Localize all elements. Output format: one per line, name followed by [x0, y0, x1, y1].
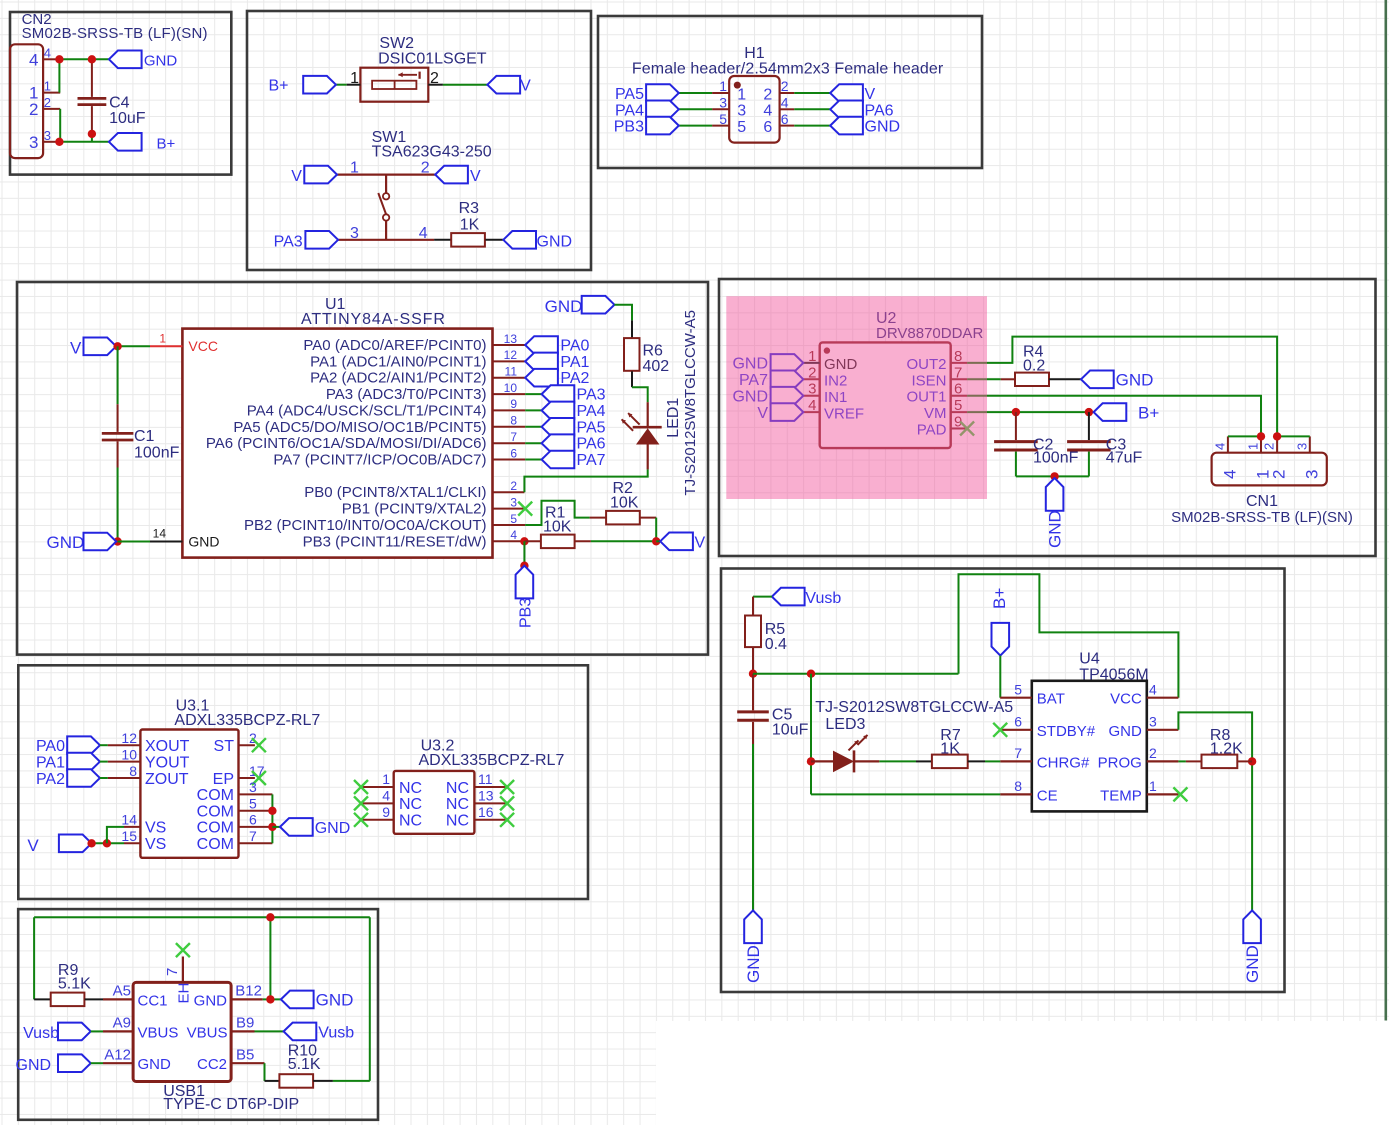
svg-text:GND: GND	[545, 297, 583, 316]
svg-text:PA4: PA4	[615, 102, 644, 119]
svg-text:3: 3	[350, 225, 359, 242]
svg-text:V: V	[470, 168, 481, 185]
junction vm2	[1085, 408, 1093, 416]
svg-text:PB3 (PCINT11/RESET/dW): PB3 (PCINT11/RESET/dW)	[303, 533, 487, 550]
svg-text:B+: B+	[269, 78, 289, 95]
svg-text:3: 3	[1149, 714, 1157, 730]
svg-text:Vusb: Vusb	[318, 1025, 354, 1042]
pin 4 VREF	[803, 397, 864, 422]
block frame switches	[247, 11, 591, 270]
svg-text:NC: NC	[446, 780, 469, 797]
svg-text:1: 1	[159, 331, 166, 345]
svg-text:GND: GND	[537, 233, 573, 250]
pin 7 COM	[197, 828, 273, 853]
svg-text:PROG: PROG	[1098, 754, 1142, 771]
port V right u1	[660, 533, 705, 552]
no-connect X 13	[500, 796, 514, 810]
pin 1 marker dot u2	[824, 347, 830, 353]
pin 9 PA4	[247, 397, 525, 419]
svg-text:1: 1	[719, 78, 727, 94]
no-connect X pin 17	[252, 771, 266, 785]
svg-text:Vusb: Vusb	[805, 590, 841, 607]
junction at pin4	[55, 55, 63, 63]
pin 6 PA7	[273, 446, 525, 468]
port PA5	[615, 84, 679, 103]
wire COM bus	[271, 794, 273, 843]
wire VS up	[107, 827, 124, 843]
junction com2	[268, 823, 276, 831]
wire gnd bottom u2	[1016, 475, 1089, 477]
junction com1	[268, 807, 276, 815]
svg-text:GND: GND	[47, 533, 85, 552]
pin 2 of CN2	[29, 95, 60, 119]
wire com to gnd	[272, 826, 280, 828]
svg-text:16: 16	[478, 804, 494, 820]
wire prog to r8	[1178, 760, 1201, 762]
pin 3 of CN1	[1294, 436, 1321, 479]
junction cn1 a	[1257, 432, 1265, 440]
port PA7	[542, 451, 606, 469]
svg-text:3: 3	[510, 495, 517, 509]
port B+	[109, 133, 176, 152]
pin 4 of CN1	[1212, 436, 1239, 479]
pin 4 of CN2	[29, 45, 57, 69]
svg-text:V: V	[520, 78, 531, 95]
ic USB1 body	[133, 982, 231, 1081]
wire GND net top	[59, 58, 109, 60]
pin 1 VCC	[159, 331, 218, 354]
svg-text:TJ-S2012SW8TGLCCW-A5: TJ-S2012SW8TGLCCW-A5	[682, 310, 699, 496]
port Vusb b9	[284, 1023, 355, 1042]
ic U1 body	[182, 329, 492, 558]
no-connect X PAD	[960, 422, 974, 436]
sheet blank area (no grid) bottom-right	[656, 1021, 1389, 1125]
svg-text:2: 2	[781, 78, 789, 94]
port PA6	[830, 101, 893, 120]
svg-text:PA6: PA6	[865, 102, 894, 119]
pin 2 of CN1	[1262, 436, 1289, 479]
no-connect X 9	[354, 813, 368, 827]
junction top	[266, 913, 274, 921]
wire B+ to SW2	[336, 84, 361, 86]
svg-text:GND: GND	[138, 1056, 172, 1073]
port PB3	[614, 117, 679, 136]
svg-text:14: 14	[153, 527, 167, 541]
svg-text:ST: ST	[214, 738, 235, 755]
svg-text:EH: EH	[176, 983, 193, 1004]
wire pa	[525, 442, 541, 444]
junction PB3	[520, 537, 528, 545]
svg-text:A9: A9	[113, 1015, 131, 1032]
block frame CN2	[10, 12, 231, 175]
block frame U3	[18, 665, 588, 899]
pin 7 CHRG#	[1000, 745, 1090, 771]
svg-text:2: 2	[44, 95, 51, 110]
wire pa u3	[100, 744, 108, 746]
port GND sw	[503, 231, 572, 250]
svg-text:PA4 (ADC4/USCK/SCL/T1/PCINT4): PA4 (ADC4/USCK/SCL/T1/PCINT4)	[247, 402, 487, 419]
svg-text:B+: B+	[1138, 404, 1159, 423]
wire OUT1 to CN1 pin1	[967, 396, 1261, 437]
wire pa	[525, 393, 541, 395]
svg-text:10: 10	[504, 381, 518, 395]
pin 8 OUT2	[906, 348, 967, 373]
pin 3 GND	[1108, 714, 1178, 740]
svg-text:5: 5	[719, 111, 727, 127]
pin 5 BAT	[1000, 682, 1065, 708]
port GND top right	[545, 296, 615, 316]
svg-text:PA6 (PCINT6/OC1A/SDA/MOSI/DI/A: PA6 (PCINT6/OC1A/SDA/MOSI/DI/ADC6)	[206, 435, 487, 452]
svg-text:2: 2	[421, 160, 430, 177]
svg-text:7: 7	[164, 968, 181, 976]
svg-text:3: 3	[1294, 443, 1309, 450]
junction PB3 flag	[520, 562, 528, 570]
pin 1 of CN1	[1246, 436, 1273, 479]
wire main net	[753, 574, 1178, 697]
svg-text:V: V	[695, 534, 706, 551]
wire SW2 to V	[428, 84, 487, 86]
svg-text:GND: GND	[1116, 370, 1154, 389]
svg-text:PA0: PA0	[560, 338, 589, 355]
svg-text:GND: GND	[315, 820, 351, 837]
connector CN2 body	[10, 44, 43, 158]
port GND a12	[16, 1054, 91, 1074]
svg-text:GND: GND	[1046, 510, 1065, 548]
capacitor C1	[102, 404, 180, 467]
svg-text:9: 9	[382, 804, 390, 820]
pin 3 of CN2	[29, 128, 57, 152]
block frame U1	[17, 282, 708, 655]
port PA6	[542, 434, 606, 452]
svg-text:Female header/2.54mm2x3 Female: Female header/2.54mm2x3 Female header	[632, 61, 944, 78]
svg-text:0.2: 0.2	[1023, 357, 1045, 374]
wire cn1 right	[1277, 435, 1310, 437]
led LED3	[811, 735, 879, 773]
wire pa u3	[100, 761, 108, 763]
svg-text:PB1 (PCINT9/XTAL2): PB1 (PCINT9/XTAL2)	[342, 501, 487, 518]
svg-text:7: 7	[249, 828, 257, 844]
svg-text:PA1: PA1	[36, 754, 65, 771]
pin 1 marker dot	[734, 82, 741, 89]
svg-text:4: 4	[510, 528, 517, 542]
svg-text:ADXL335BCPZ-RL7: ADXL335BCPZ-RL7	[174, 712, 320, 729]
pin 1 TEMP	[1100, 778, 1178, 804]
wire left bus	[811, 674, 1000, 795]
svg-text:10K: 10K	[610, 495, 639, 512]
block frame USB1	[18, 909, 378, 1120]
port PA0	[36, 736, 100, 755]
svg-text:TEMP: TEMP	[1100, 787, 1142, 804]
junction main	[807, 670, 815, 678]
resistor R7	[932, 727, 968, 768]
wire b12	[263, 998, 281, 1000]
svg-text:3: 3	[29, 133, 38, 152]
svg-text:10uF: 10uF	[772, 721, 809, 738]
svg-text:GND: GND	[744, 945, 763, 983]
pin 1 of CN2	[29, 79, 60, 103]
port PB3 down	[516, 566, 535, 628]
svg-text:COM: COM	[197, 836, 234, 853]
resistor R2	[590, 480, 657, 524]
port PA2	[36, 769, 100, 788]
svg-text:ZOUT: ZOUT	[145, 771, 189, 788]
svg-text:V: V	[291, 168, 302, 185]
header H1 body	[729, 76, 779, 143]
wire pin2 to pin3	[59, 109, 61, 142]
svg-text:CHRG#: CHRG#	[1037, 754, 1090, 771]
svg-text:PA0 (ADC0/AREF/PCINT0): PA0 (ADC0/AREF/PCINT0)	[303, 337, 486, 354]
svg-text:8: 8	[1014, 778, 1022, 794]
svg-text:PB0 (PCINT8/XTAL1/CLKI): PB0 (PCINT8/XTAL1/CLKI)	[304, 484, 486, 501]
svg-text:GND: GND	[316, 991, 354, 1010]
svg-text:10: 10	[121, 746, 137, 762]
port GND	[109, 51, 177, 70]
pin 9 NC left	[361, 804, 422, 830]
pin 13 PA0	[303, 332, 525, 354]
junction V	[113, 342, 121, 350]
wire right	[794, 125, 830, 127]
svg-text:PA1: PA1	[560, 354, 589, 371]
svg-text:13: 13	[504, 332, 518, 346]
resistor R5	[745, 616, 787, 654]
svg-text:47uF: 47uF	[1106, 449, 1143, 466]
pin 3 PB1	[342, 495, 525, 517]
port GND	[830, 117, 900, 136]
junction v2	[103, 839, 111, 847]
svg-text:100nF: 100nF	[1033, 449, 1079, 466]
svg-text:100nF: 100nF	[134, 445, 180, 462]
pin 8 ZOUT	[108, 763, 189, 788]
port V right	[487, 76, 531, 95]
no-connect X PB1	[518, 502, 532, 516]
wire b+ to bat	[999, 656, 1001, 698]
svg-text:COM: COM	[197, 804, 234, 821]
svg-text:PA7 (PCINT7/ICP/OC0B/ADC7): PA7 (PCINT7/ICP/OC0B/ADC7)	[273, 452, 486, 469]
block frame U2	[719, 279, 1376, 556]
port PA0	[525, 336, 589, 354]
junction GND u1	[113, 537, 121, 545]
svg-text:DSIC01LSGET: DSIC01LSGET	[378, 50, 487, 67]
svg-text:GND: GND	[194, 992, 228, 1009]
svg-text:VBUS: VBUS	[187, 1024, 228, 1041]
port V right2	[435, 166, 481, 185]
svg-text:V: V	[865, 86, 876, 103]
port PA7 u2	[739, 371, 803, 390]
junction at pin3	[55, 138, 63, 146]
pin 2 of H1	[763, 78, 794, 103]
junction V right	[652, 537, 660, 545]
svg-text:PA2 (ADC2/AIN1/PCINT2): PA2 (ADC2/AIN1/PCINT2)	[310, 370, 486, 387]
wire top net	[34, 917, 370, 1081]
svg-text:6: 6	[249, 812, 257, 828]
svg-text:3: 3	[44, 128, 51, 143]
svg-text:4: 4	[29, 50, 38, 69]
svg-text:PA6: PA6	[577, 436, 606, 453]
svg-text:B5: B5	[236, 1047, 254, 1064]
selection highlight	[726, 296, 987, 499]
svg-text:R6: R6	[643, 342, 664, 359]
wire GND to R6	[614, 305, 632, 338]
svg-text:12: 12	[504, 348, 518, 362]
wire right	[794, 108, 830, 110]
junction at C4 top	[88, 55, 96, 63]
pin 17 EP	[213, 763, 265, 788]
svg-text:NC: NC	[399, 796, 422, 813]
port GND u2	[732, 387, 803, 406]
junction b12	[266, 995, 274, 1003]
port PA3	[274, 231, 339, 250]
svg-text:BAT: BAT	[1037, 691, 1065, 708]
wire pa	[525, 459, 541, 461]
svg-text:C1: C1	[134, 428, 155, 445]
svg-text:SM02B-SRSS-TB (LF)(SN): SM02B-SRSS-TB (LF)(SN)	[22, 25, 208, 42]
pin 12 XOUT	[108, 730, 190, 755]
svg-text:5: 5	[737, 119, 746, 136]
svg-text:NC: NC	[399, 813, 422, 830]
svg-text:5: 5	[510, 512, 517, 526]
no-connect X STDBY	[993, 723, 1007, 737]
pin 13 NC right	[446, 788, 507, 814]
svg-text:C4: C4	[109, 95, 130, 112]
svg-text:4: 4	[1149, 682, 1157, 698]
pin 16 NC right	[446, 804, 507, 830]
pin 11 NC right	[446, 771, 507, 797]
wire OUT2 to CN1 pin2	[967, 337, 1277, 437]
pin 4 VCC	[1110, 682, 1178, 708]
pin B5 CC2	[197, 1047, 265, 1074]
svg-text:7: 7	[510, 430, 517, 444]
svg-text:U4: U4	[1079, 651, 1100, 668]
wire vusb to r5	[753, 597, 772, 616]
no-connect X TEMP	[1173, 787, 1187, 801]
port GND u4 left	[744, 910, 763, 983]
port V u1	[70, 338, 116, 358]
svg-text:7: 7	[1014, 745, 1022, 761]
switch SW2	[360, 68, 428, 102]
resistor R6	[624, 338, 669, 375]
svg-text:2: 2	[510, 479, 517, 493]
svg-text:TYPE-C DT6P-DIP: TYPE-C DT6P-DIP	[163, 1096, 299, 1113]
wire PB0 to LED1	[524, 469, 647, 492]
svg-text:3: 3	[719, 95, 727, 111]
wire r5 down	[752, 647, 754, 674]
wire V to VS	[92, 842, 124, 844]
svg-text:COM: COM	[197, 787, 234, 804]
connector CN1 body	[1212, 453, 1327, 486]
svg-text:B9: B9	[236, 1015, 254, 1032]
pin 5 of H1	[712, 111, 746, 136]
svg-text:1K: 1K	[460, 217, 480, 234]
resistor R8	[1202, 727, 1253, 768]
wire PB2 to R2	[525, 501, 589, 525]
junction r8	[1248, 757, 1256, 765]
svg-text:4: 4	[1220, 470, 1239, 479]
wire cn1 left	[1228, 435, 1261, 437]
svg-text:2: 2	[1262, 443, 1277, 450]
port V	[830, 84, 875, 103]
svg-text:15: 15	[121, 828, 137, 844]
svg-text:4: 4	[419, 225, 428, 242]
pin A12 GND	[91, 1047, 171, 1074]
svg-text:NC: NC	[399, 780, 422, 797]
svg-text:12: 12	[121, 730, 137, 746]
svg-text:Vusb: Vusb	[23, 1025, 59, 1042]
svg-text:PA3: PA3	[577, 387, 606, 404]
block frame U4	[721, 569, 1285, 993]
resistor R9	[34, 962, 103, 1006]
svg-text:5.1K: 5.1K	[288, 1056, 321, 1073]
pin A5 CC1	[103, 983, 168, 1010]
svg-text:8: 8	[129, 763, 137, 779]
svg-text:PA5 (ADC5/DO/MISO/OC1B/PCINT5): PA5 (ADC5/DO/MISO/OC1B/PCINT5)	[233, 419, 486, 436]
pin A9 VBUS	[91, 1015, 179, 1042]
wire PB3 down	[523, 541, 525, 565]
svg-text:4: 4	[781, 95, 789, 111]
svg-text:B+: B+	[157, 135, 176, 152]
no-connect X 1	[354, 780, 368, 794]
resistor R1	[524, 504, 591, 548]
pin 3 of H1	[712, 95, 746, 120]
svg-text:VS: VS	[145, 820, 166, 837]
wire V to VCC	[118, 345, 183, 347]
svg-text:GND: GND	[865, 119, 901, 136]
junction cn1 b	[1273, 432, 1281, 440]
svg-text:PA3: PA3	[274, 233, 303, 250]
block frame H1	[598, 16, 982, 168]
pin 6 of H1	[763, 111, 794, 136]
svg-text:3: 3	[249, 779, 257, 795]
wire to V port	[656, 540, 660, 542]
svg-text:CE: CE	[1037, 787, 1058, 804]
capacitor C2	[994, 412, 1078, 476]
resistor R4	[1015, 343, 1049, 386]
svg-text:R3: R3	[459, 200, 480, 217]
pin 5 COM	[197, 796, 273, 821]
port GND b12	[281, 991, 353, 1010]
svg-text:14: 14	[121, 812, 137, 828]
port PA2	[525, 369, 589, 387]
port PA5	[542, 418, 606, 436]
wire VM to B+	[967, 411, 1094, 413]
pin 4 PB3	[303, 528, 525, 550]
wire V down to C1	[117, 346, 119, 404]
pin 15 VS	[121, 828, 166, 853]
port PA4	[615, 101, 679, 120]
no-connect X pin 2	[252, 738, 266, 752]
pin 6 COM	[197, 812, 273, 837]
pin 8 CE	[1000, 778, 1057, 804]
svg-text:4: 4	[44, 45, 51, 60]
junction vm1	[1012, 408, 1020, 416]
svg-text:5: 5	[1014, 682, 1022, 698]
pin B9 VBUS	[187, 1015, 255, 1042]
pin 12 PA1	[310, 348, 525, 370]
svg-text:PB3: PB3	[518, 598, 535, 628]
svg-text:5.1K: 5.1K	[58, 976, 91, 993]
port GND u2 down	[1046, 478, 1065, 548]
wire pin4 to pin1	[58, 59, 60, 92]
svg-text:2: 2	[763, 86, 772, 103]
svg-text:1: 1	[1246, 443, 1261, 450]
junction led3	[807, 757, 815, 765]
svg-text:3: 3	[1302, 470, 1321, 479]
junction v1	[87, 839, 95, 847]
no-connect X 4	[354, 796, 368, 810]
svg-text:1: 1	[350, 160, 359, 177]
pin 8 PA5	[233, 414, 525, 436]
svg-text:EP: EP	[213, 771, 234, 788]
svg-text:VS: VS	[145, 836, 166, 853]
